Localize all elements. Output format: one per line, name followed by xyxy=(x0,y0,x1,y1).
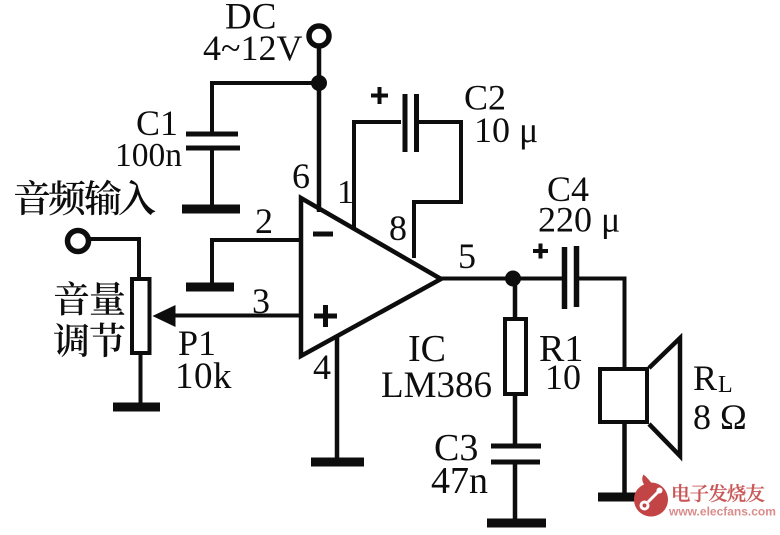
wire pin6 xyxy=(317,83,322,212)
wire xyxy=(210,238,214,285)
svg-text:L: L xyxy=(718,372,733,398)
svg-text:3: 3 xyxy=(252,281,270,321)
svg-text:220 μ: 220 μ xyxy=(538,200,620,240)
terminal DC+ xyxy=(309,26,329,46)
potentiometer P1 wiper arrow xyxy=(153,305,176,327)
svg-text:10k: 10k xyxy=(175,356,232,397)
wire xyxy=(419,120,461,124)
wire xyxy=(210,150,214,206)
svg-text:10: 10 xyxy=(545,357,581,397)
label audio input 音频输入 xyxy=(15,180,155,216)
op-amp U1 LM386 xyxy=(301,198,441,356)
wire xyxy=(513,278,518,318)
wire xyxy=(414,200,463,204)
terminal input xyxy=(68,231,89,252)
svg-text:LM386: LM386 xyxy=(381,365,492,406)
svg-text:2: 2 xyxy=(255,201,273,241)
wire xyxy=(352,120,401,124)
svg-text:4: 4 xyxy=(313,347,331,387)
resistor R1 body xyxy=(505,319,526,394)
ground speaker xyxy=(598,493,650,502)
svg-text:47n: 47n xyxy=(431,460,488,502)
svg-text:8: 8 xyxy=(389,208,407,248)
wire pin2 xyxy=(210,238,301,242)
wire xyxy=(622,424,627,495)
svg-text:IC: IC xyxy=(408,328,446,370)
label 调节 xyxy=(54,322,125,357)
junction output node xyxy=(505,271,521,287)
wire pin3 xyxy=(173,314,301,318)
ground C1 xyxy=(182,205,240,214)
speaker RL body xyxy=(600,369,647,422)
wire xyxy=(210,81,319,85)
capacitor C3 xyxy=(491,444,541,449)
junction supply node xyxy=(311,75,327,91)
op-amp plus input mark xyxy=(314,314,337,319)
label 音量 xyxy=(55,281,125,315)
wire xyxy=(513,396,518,445)
watermark text 电子发烧友 xyxy=(673,484,764,502)
svg-text:6: 6 xyxy=(292,156,310,196)
svg-text:www.elecfans.com: www.elecfans.com xyxy=(668,505,776,519)
speaker RL horn xyxy=(649,338,680,456)
capacitor C2 polarity + xyxy=(371,94,388,98)
wire xyxy=(317,46,322,83)
wire pin4 xyxy=(335,336,340,461)
svg-text:10 μ: 10 μ xyxy=(474,110,538,150)
wire pin8 xyxy=(412,200,416,258)
wire pin5 output xyxy=(441,277,563,281)
wire xyxy=(139,355,143,405)
op-amp minus input mark xyxy=(313,232,333,237)
svg-text:R: R xyxy=(693,358,717,398)
capacitor C2 xyxy=(403,94,408,152)
wire xyxy=(89,239,139,279)
svg-text:1: 1 xyxy=(337,174,354,211)
wire xyxy=(210,81,214,132)
wire xyxy=(459,120,463,202)
svg-text:4~12V: 4~12V xyxy=(203,28,302,68)
svg-text:5: 5 xyxy=(458,236,476,276)
capacitor C4 polarity + xyxy=(533,249,548,253)
svg-text:100n: 100n xyxy=(115,137,182,174)
capacitor C4 xyxy=(562,247,568,309)
wire xyxy=(579,279,625,370)
svg-text:8 Ω: 8 Ω xyxy=(693,397,747,437)
ground P1 xyxy=(113,403,160,412)
ground pin2 xyxy=(186,283,234,292)
ground C3 xyxy=(487,519,546,528)
capacitor C1 xyxy=(186,132,238,137)
watermark logo elecfans xyxy=(634,475,668,517)
ground pin4 xyxy=(311,458,364,467)
potentiometer P1 body xyxy=(132,279,150,353)
wire xyxy=(513,464,518,521)
wire pin1 xyxy=(352,120,356,230)
